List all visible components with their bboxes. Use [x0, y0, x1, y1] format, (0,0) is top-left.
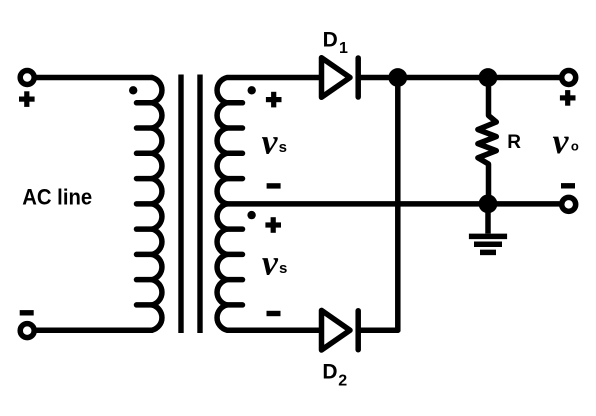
svg-text:D: D [322, 360, 337, 383]
polarity minus J2 [20, 310, 34, 315]
top rail wire to output [488, 75, 559, 81]
polarity plus secondary upper [266, 92, 282, 108]
polarity plus J1 [19, 91, 35, 107]
svg-text:AC line: AC line [22, 184, 92, 209]
svg-text:s: s [279, 260, 287, 277]
polarity minus J4 [561, 183, 575, 188]
svg-text:o: o [571, 139, 579, 154]
center tap wire [227, 201, 559, 207]
polarity plus secondary lower [265, 217, 281, 233]
svg-text:R: R [507, 132, 521, 153]
terminal J1 (AC line top) [20, 71, 34, 85]
resistor R [478, 78, 496, 204]
svg-text:v: v [553, 121, 570, 161]
terminal J4 (output -) [562, 197, 576, 211]
terminal J2 (AC line bottom) [20, 324, 34, 338]
diode D1 [322, 58, 359, 98]
phase dot secondary lower [247, 211, 255, 219]
svg-text:s: s [279, 139, 287, 156]
terminal J3 (output +) [562, 71, 576, 85]
svg-text:1: 1 [339, 40, 348, 57]
transformer T1 secondary upper winding [217, 78, 322, 204]
wire riser from D2 to node A [395, 78, 401, 331]
wire top-left [37, 75, 152, 81]
svg-text:2: 2 [338, 372, 347, 389]
junction node B (top of R) [479, 68, 498, 87]
wire D2 cathode to riser [358, 327, 398, 333]
wire D1 cathode to node A [358, 75, 488, 81]
junction node C (bottom of R) [479, 194, 498, 213]
diode D2 [322, 310, 359, 350]
wire bottom-left [37, 327, 152, 333]
svg-text:v: v [262, 121, 279, 161]
svg-text:v: v [262, 243, 279, 283]
polarity plus J3 [560, 90, 576, 106]
polarity minus secondary upper [267, 183, 281, 188]
polarity minus secondary lower [267, 311, 281, 316]
svg-text:D: D [323, 28, 338, 51]
transformer T1 primary winding [137, 78, 162, 331]
phase dot primary [129, 86, 137, 94]
transformer T1 core [181, 75, 200, 334]
phase dot secondary upper [248, 86, 256, 94]
junction node A [388, 68, 407, 87]
transformer T1 secondary lower winding [217, 204, 322, 330]
ground symbol [469, 204, 507, 253]
